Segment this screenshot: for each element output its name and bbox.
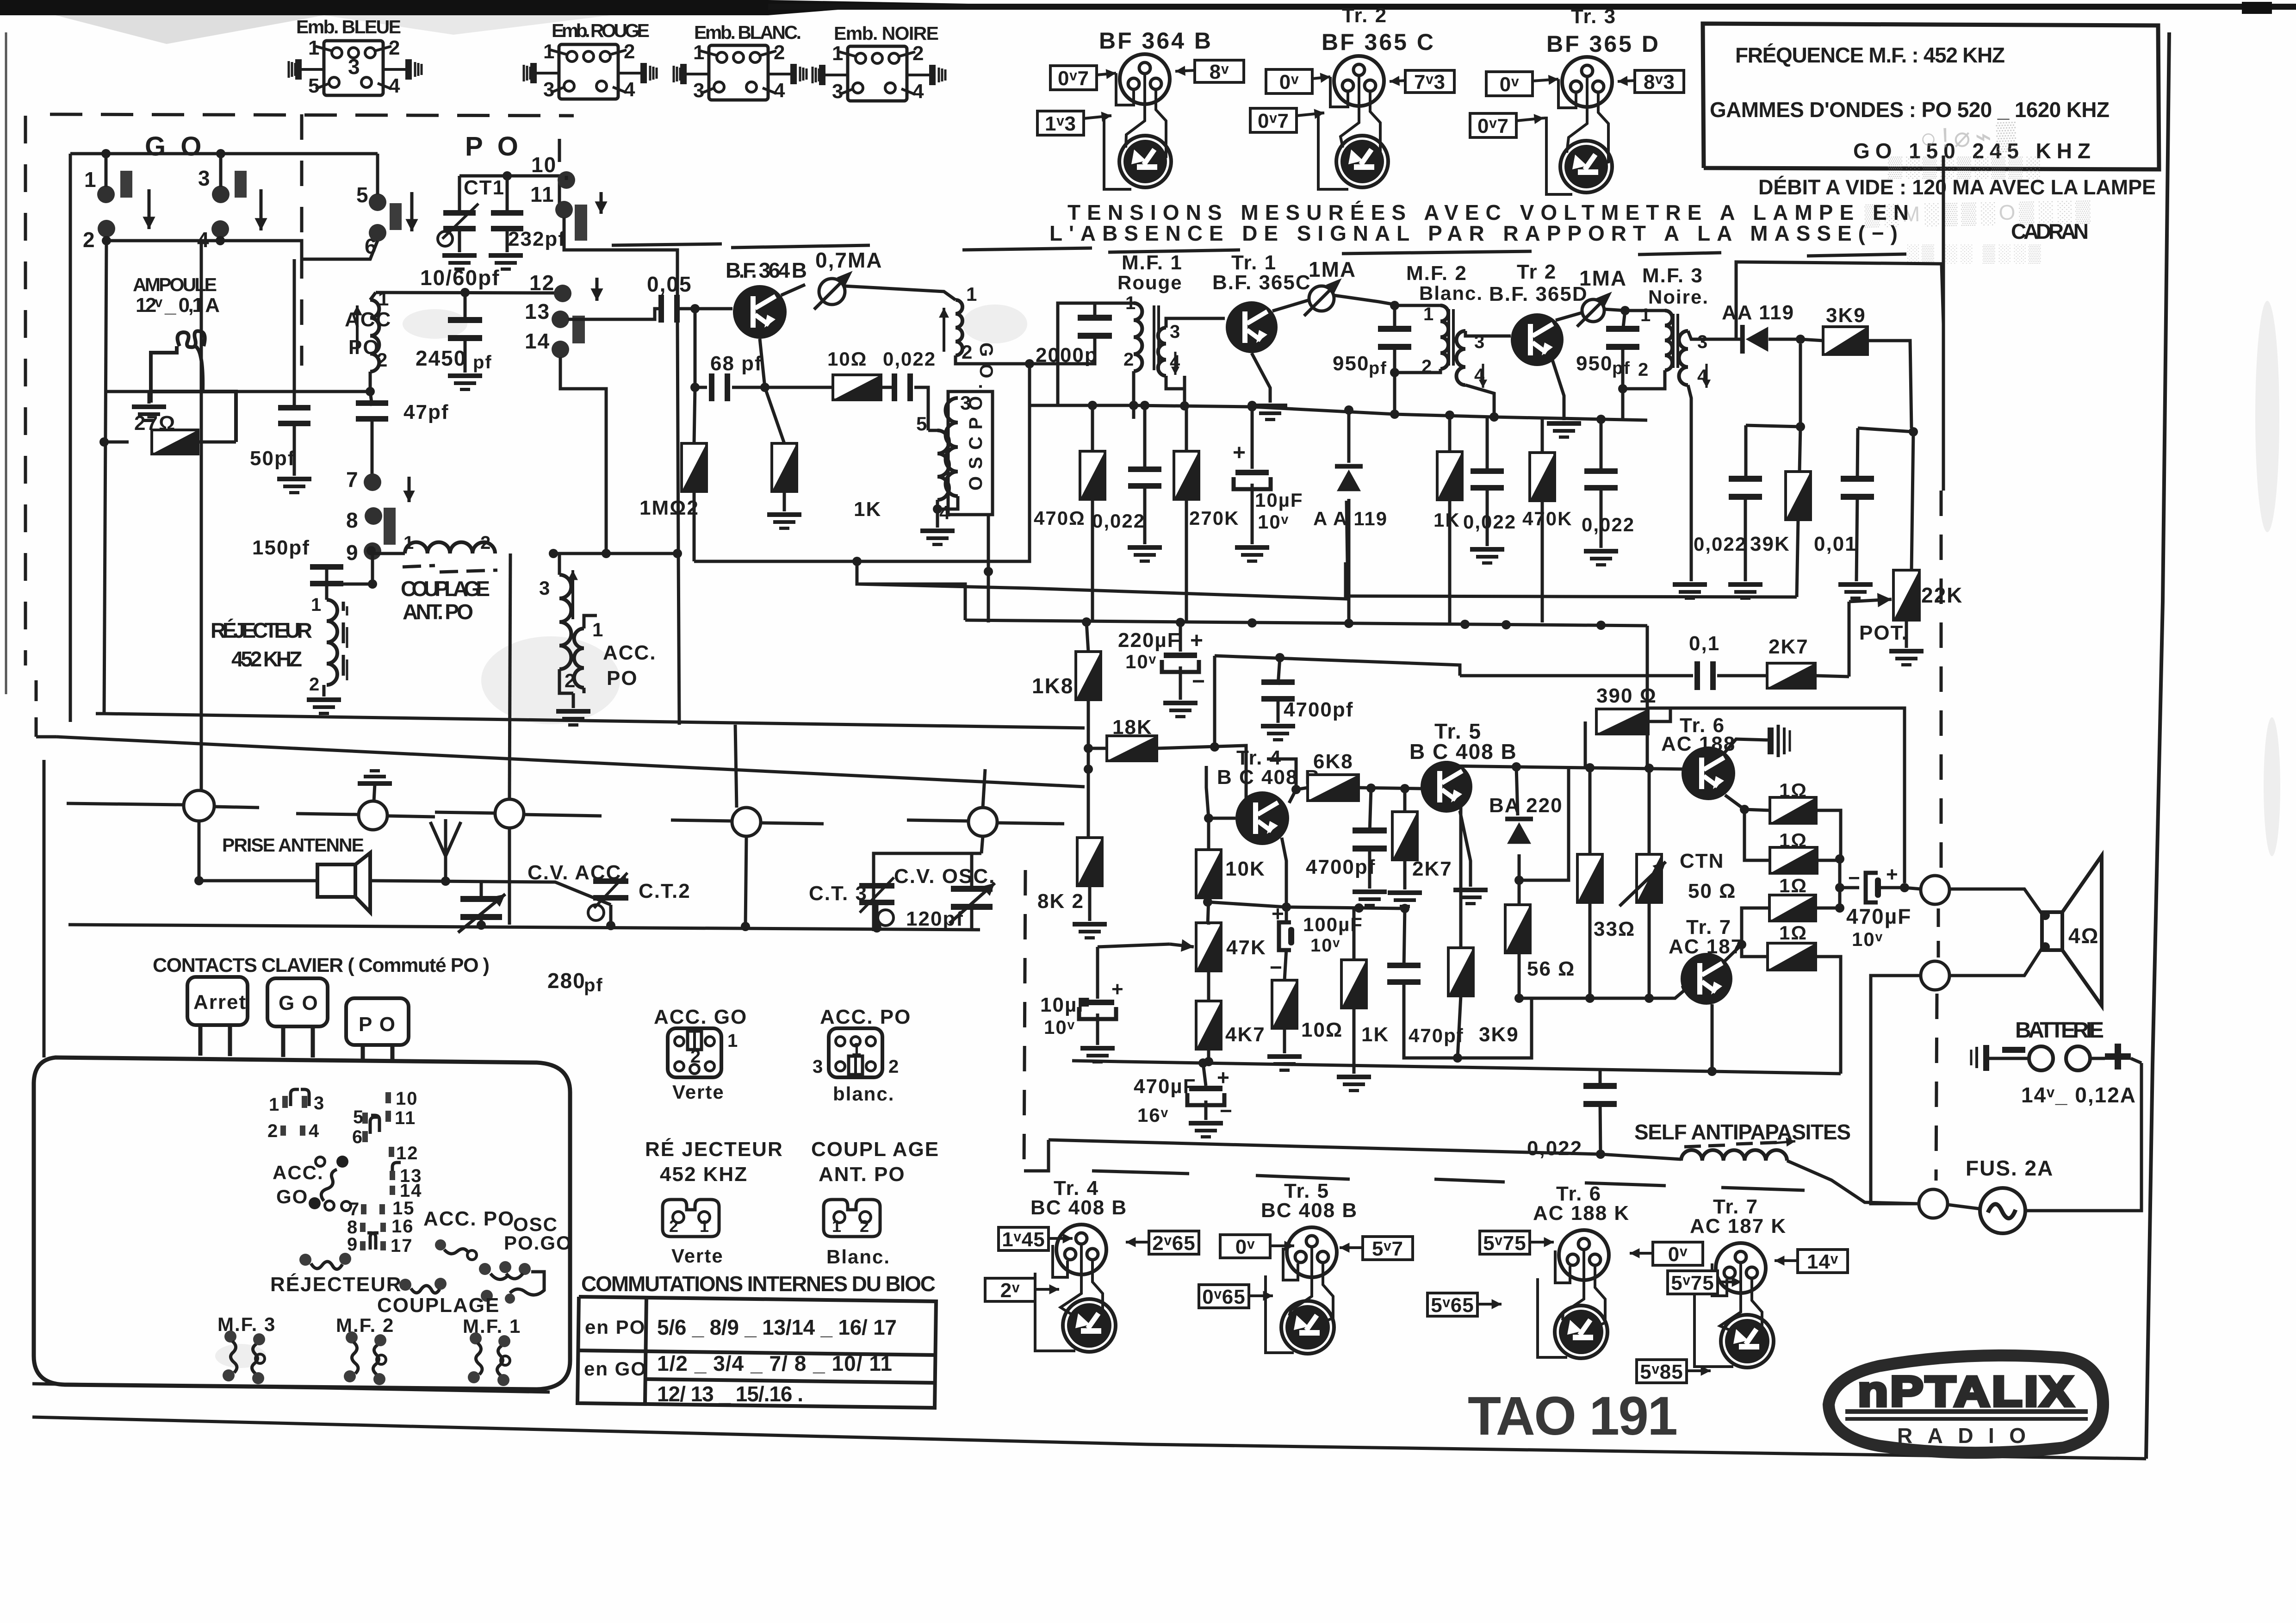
scan noise top-left bbox=[56, 15, 611, 44]
svg-text:PRISE ANTENNE: PRISE ANTENNE bbox=[222, 834, 366, 856]
svg-text:3: 3 bbox=[314, 1093, 325, 1113]
wire pot top bbox=[1911, 432, 1913, 571]
svg-text:12/ 13 _ 15/.16 .: 12/ 13 _ 15/.16 . bbox=[657, 1382, 804, 1406]
svg-text:470K: 470K bbox=[1522, 508, 1572, 529]
svg-text:0,022: 0,022 bbox=[883, 348, 936, 370]
svg-text:10Ω: 10Ω bbox=[827, 348, 867, 370]
svg-text:M.F. 1: M.F. 1 bbox=[463, 1315, 521, 1337]
svg-text:47K: 47K bbox=[1226, 936, 1266, 959]
wire GO top rail bbox=[70, 152, 378, 155]
stamp smudge 2 bbox=[1864, 199, 2094, 264]
svg-text:pf: pf bbox=[584, 975, 603, 995]
svg-text:0ᵛ: 0ᵛ bbox=[1500, 73, 1519, 96]
wire tr5 emitter bbox=[1460, 811, 1471, 887]
acc po transformer wires bbox=[558, 553, 561, 575]
connector REJECTEUR bbox=[663, 1200, 719, 1237]
transformer MF1 bbox=[1134, 303, 1142, 371]
wire tr2 emitter bbox=[1552, 360, 1564, 420]
wire rail B left stub bbox=[1024, 1140, 1049, 1171]
svg-text:1Ω: 1Ω bbox=[1779, 922, 1807, 944]
wire tr1 emitter bbox=[1252, 353, 1270, 403]
svg-text:CTN: CTN bbox=[1680, 850, 1724, 872]
wire bus 1345 bbox=[965, 620, 1647, 626]
svg-text:+: + bbox=[1190, 628, 1204, 653]
svg-text:1/2 _ 3/4 _ 7/ 8 _ 10/ 1: 1/2 _ 3/4 _ 7/ 8 _ 10/ 11 bbox=[657, 1351, 893, 1375]
mf2 block pins bbox=[344, 1331, 386, 1385]
wire osc go bottom bbox=[956, 355, 1030, 364]
svg-text:RADIO: RADIO bbox=[1897, 1424, 2036, 1448]
svg-text:en GO: en GO bbox=[584, 1358, 647, 1380]
switch arrow 1 bbox=[143, 189, 155, 229]
wire couplage bbox=[372, 553, 405, 584]
voltage box 5ᵛ7 bbox=[1363, 1237, 1413, 1260]
transistor pinout BF 364 B wires bbox=[1116, 73, 1134, 105]
svg-text:pf: pf bbox=[1369, 359, 1387, 378]
svg-text:COUPL AGE: COUPL AGE bbox=[811, 1138, 939, 1161]
svg-text:470pf: 470pf bbox=[1409, 1025, 1464, 1046]
svg-text:9: 9 bbox=[347, 1234, 358, 1255]
svg-text:1K: 1K bbox=[1361, 1023, 1389, 1046]
svg-text:2: 2 bbox=[690, 1046, 701, 1067]
svg-text:1: 1 bbox=[1423, 304, 1434, 324]
wire rail B 2157 bbox=[1519, 990, 1684, 998]
contact square 5-6 bbox=[390, 203, 402, 230]
dashed boundary x2216 bbox=[1024, 870, 1025, 1171]
svg-text:8: 8 bbox=[346, 508, 359, 532]
svg-text:0,022: 0,022 bbox=[1527, 1137, 1582, 1160]
svg-text:Emb. BLEUE: Emb. BLEUE bbox=[296, 16, 403, 37]
svg-text:COMMUTATIONS INTERNES DU Bl: COMMUTATIONS INTERNES DU BlOC bbox=[581, 1272, 936, 1296]
tr6 emitter wire bbox=[1725, 795, 1744, 809]
svg-text:P O: P O bbox=[465, 131, 522, 162]
transistor pinout BF 365 D wires bbox=[1558, 79, 1576, 108]
svg-text:RÉ JECTEUR: RÉ JECTEUR bbox=[645, 1138, 783, 1161]
wire mf3 ret ground bbox=[1690, 481, 1693, 581]
osc po box bbox=[948, 392, 993, 515]
feedthrough circle D bbox=[735, 725, 737, 808]
svg-text:6K8: 6K8 bbox=[1313, 750, 1353, 773]
svg-text:10ᵛ: 10ᵛ bbox=[1044, 1016, 1075, 1038]
svg-text:0,022: 0,022 bbox=[1092, 510, 1145, 532]
variable capacitor C.V. OSC bbox=[951, 886, 993, 910]
connector Emb. BLANC bbox=[674, 45, 807, 100]
tr6 base wire bbox=[1684, 768, 1689, 771]
block contacts OSC squiggle bbox=[479, 1261, 544, 1304]
svg-text:ACC. GO: ACC. GO bbox=[654, 1006, 747, 1028]
wire avc line up and around bbox=[1736, 262, 1943, 339]
wire emitter down bbox=[760, 339, 765, 387]
transistor Tr1 bbox=[1226, 301, 1278, 353]
transistor pinout BF 365 D device disc bbox=[1560, 141, 1612, 193]
svg-text:M.F. 1: M.F. 1 bbox=[1122, 251, 1183, 274]
block contacts 12-17 bbox=[347, 1143, 422, 1256]
pin numbers Emb. ROUGE bbox=[543, 40, 636, 101]
wire agc from mixer bbox=[694, 560, 857, 563]
svg-text:10ᵛ: 10ᵛ bbox=[1258, 511, 1289, 533]
svg-text:5ᵛ7: 5ᵛ7 bbox=[1372, 1237, 1403, 1260]
svg-text:7: 7 bbox=[349, 1199, 360, 1219]
svg-text:B C 408 B: B C 408 B bbox=[1217, 766, 1320, 789]
capacitor 470pf bbox=[1387, 963, 1421, 985]
transformer MF2 bbox=[1440, 305, 1448, 369]
svg-text:1: 1 bbox=[693, 41, 705, 64]
switch arrow 7 bbox=[403, 477, 415, 502]
pin numbers Emb. NOIRE bbox=[832, 42, 925, 103]
block contacts cluster 1-4 bbox=[267, 1089, 325, 1141]
wire po14 down bbox=[605, 444, 608, 553]
switch arrow 3 bbox=[254, 189, 267, 230]
connector Emb. BLEUE bbox=[289, 41, 422, 95]
connector Emb. ROUGE bbox=[524, 44, 657, 99]
svg-text:PO: PO bbox=[607, 667, 638, 690]
svg-text:2: 2 bbox=[1638, 360, 1649, 380]
svg-text:3K9: 3K9 bbox=[1826, 304, 1866, 327]
svg-text:950: 950 bbox=[1576, 352, 1613, 375]
svg-text:1MA: 1MA bbox=[1309, 257, 1356, 281]
wire 0,05 to base bbox=[677, 307, 732, 311]
svg-text:270K: 270K bbox=[1189, 507, 1239, 529]
svg-text:BC 408 B: BC 408 B bbox=[1261, 1199, 1358, 1222]
svg-text:0,022: 0,022 bbox=[1463, 511, 1516, 533]
capacitor 4700pf tr5 bbox=[1353, 827, 1387, 852]
svg-text:1K: 1K bbox=[1433, 509, 1460, 531]
svg-text:2: 2 bbox=[267, 1121, 279, 1141]
svg-text:Emb. BLANC.: Emb. BLANC. bbox=[694, 22, 803, 43]
svg-text:3: 3 bbox=[832, 80, 844, 103]
voltage box 5ᵛ85 bbox=[1637, 1360, 1687, 1383]
fuse circle feedthrough bbox=[1919, 1189, 1948, 1218]
wire mf2 pri bbox=[1395, 304, 1440, 307]
svg-text:B.F. 365D: B.F. 365D bbox=[1489, 283, 1588, 305]
svg-text:10µF: 10µF bbox=[1255, 489, 1303, 511]
svg-text:4: 4 bbox=[939, 502, 951, 523]
switch arrow 12 bbox=[590, 278, 603, 301]
wire rail 1530 bbox=[1647, 708, 1905, 883]
feedthrough circle B chassis bbox=[358, 769, 392, 786]
wire mf1 bottom bbox=[1132, 371, 1136, 405]
svg-text:2: 2 bbox=[389, 37, 401, 59]
wire e-bus 1960 bbox=[1208, 902, 1405, 908]
svg-text:10ᵛ: 10ᵛ bbox=[1852, 928, 1883, 950]
svg-text:0ᵛ7: 0ᵛ7 bbox=[1058, 67, 1089, 90]
svg-text:11: 11 bbox=[530, 182, 555, 206]
mf1 block pins bbox=[468, 1332, 510, 1386]
svg-text:1: 1 bbox=[269, 1094, 280, 1115]
svg-text:2: 2 bbox=[860, 1217, 870, 1236]
pinout circle Tr. 4 bbox=[1056, 1225, 1106, 1275]
transistor BF364B mixer bbox=[733, 285, 787, 339]
svg-text:16: 16 bbox=[391, 1216, 414, 1237]
svg-text:M.F. 3: M.F. 3 bbox=[217, 1313, 276, 1335]
pinout Tr. 4 wires bbox=[1053, 1245, 1067, 1277]
svg-text:SELF ANTIPAPASITES: SELF ANTIPAPASITES bbox=[1634, 1120, 1852, 1144]
svg-text:10/60pf: 10/60pf bbox=[420, 266, 500, 290]
pin numbers Emb. BLANC bbox=[693, 41, 786, 102]
svg-text:GO: GO bbox=[276, 1186, 308, 1207]
wire bus 1345 left end bbox=[857, 561, 965, 620]
svg-text:−: − bbox=[1192, 669, 1206, 694]
svg-text:2ᵛ65: 2ᵛ65 bbox=[1152, 1232, 1195, 1255]
wire rail L1 bbox=[96, 714, 1085, 728]
wire contact2 down rail bbox=[104, 241, 106, 714]
svg-text:B.F. 365C: B.F. 365C bbox=[1212, 271, 1311, 294]
button GO bbox=[267, 978, 328, 1026]
speaker bbox=[2042, 856, 2102, 1006]
svg-text:10Ω: 10Ω bbox=[1301, 1019, 1343, 1041]
meter 0,7MA bbox=[814, 271, 852, 309]
svg-text:2: 2 bbox=[888, 1057, 900, 1077]
svg-text:3: 3 bbox=[1170, 322, 1181, 342]
speaker circle bottom bbox=[1921, 961, 1949, 990]
voltage box 8ᵛ bbox=[1195, 60, 1244, 82]
svg-text:0,05: 0,05 bbox=[647, 272, 692, 296]
svg-text:0ᵛ: 0ᵛ bbox=[1235, 1236, 1255, 1258]
svg-text:RÉJECTEUR: RÉJECTEUR bbox=[270, 1273, 402, 1296]
svg-text:0,01: 0,01 bbox=[1814, 533, 1857, 555]
junction bbox=[101, 149, 111, 158]
svg-text:280: 280 bbox=[547, 969, 586, 993]
switch arrow 11 bbox=[595, 192, 607, 214]
svg-text:P O: P O bbox=[359, 1013, 396, 1036]
transistor pinout BF 365 D top view bbox=[1562, 57, 1612, 107]
tr7 collector wire bbox=[1711, 1004, 1714, 1071]
svg-text:Tr. 2: Tr. 2 bbox=[1342, 4, 1387, 27]
svg-text:GAMMES D'ONDES : PO 520 _: GAMMES D'ONDES : PO 520 _ 1620 KHZ bbox=[1710, 98, 2110, 122]
commutations table bbox=[577, 1297, 936, 1408]
wire GO bottom bbox=[106, 236, 220, 241]
svg-text:BA 220: BA 220 bbox=[1489, 794, 1563, 817]
transistor pinout BF 365 C top view bbox=[1334, 56, 1384, 106]
svg-text:1: 1 bbox=[700, 1217, 710, 1236]
speaker wires bbox=[1949, 889, 2042, 914]
wire 18K node down bbox=[1087, 748, 1090, 769]
voltage box 0ᵛ bbox=[1653, 1242, 1703, 1265]
antenna jack symbol bbox=[317, 853, 370, 912]
svg-text:12ᵛ _ 0,1 A: 12ᵛ _ 0,1 A bbox=[136, 294, 221, 317]
svg-text:120pf: 120pf bbox=[906, 908, 964, 930]
svg-text:5: 5 bbox=[308, 75, 320, 97]
svg-text:1: 1 bbox=[84, 168, 97, 192]
svg-text:7ᵛ3: 7ᵛ3 bbox=[1414, 71, 1446, 93]
svg-text:0ᵛ7: 0ᵛ7 bbox=[1477, 115, 1509, 137]
svg-text:1: 1 bbox=[851, 1040, 862, 1059]
wire antenna to cv bbox=[199, 847, 317, 881]
tr6 collector chassis cap bbox=[1723, 739, 1768, 754]
svg-text:10ᵛ: 10ᵛ bbox=[1310, 935, 1340, 956]
voltage box 0ᵛ bbox=[1266, 69, 1312, 93]
antenna symbol bbox=[430, 819, 461, 881]
voltage box 0ᵛ bbox=[1220, 1235, 1270, 1258]
stamp smudge bbox=[1888, 119, 2043, 179]
underline marks bbox=[612, 244, 1906, 256]
svg-text:RÉJECTEUR: RÉJECTEUR bbox=[211, 618, 313, 642]
svg-text:+: + bbox=[1111, 978, 1124, 1001]
svg-text:BF 365 C: BF 365 C bbox=[1322, 29, 1435, 55]
svg-text:39K: 39K bbox=[1750, 533, 1790, 555]
svg-text:3: 3 bbox=[813, 1057, 824, 1077]
wire mf3 pri bbox=[1625, 309, 1665, 312]
transistor Tr7 bbox=[1681, 953, 1732, 1005]
wire 27ohm bbox=[104, 441, 129, 444]
svg-text:1MΩ2: 1MΩ2 bbox=[639, 497, 699, 519]
wire af bus 1417 real bbox=[1215, 656, 1460, 676]
tuner block dashed boundary bbox=[25, 114, 574, 737]
chassis dashed line right bbox=[1940, 491, 1943, 872]
scan top black bar bbox=[0, 0, 2296, 15]
svg-text:C.T.2: C.T.2 bbox=[639, 880, 691, 902]
svg-text:1: 1 bbox=[832, 42, 844, 65]
svg-text:○!⌀⌁▒: ○!⌀⌁▒ bbox=[1919, 119, 2021, 155]
wire 11 down bbox=[564, 218, 677, 296]
svg-text:M.F. 3: M.F. 3 bbox=[1642, 264, 1703, 287]
wire rail L2 bbox=[56, 737, 1085, 787]
svg-text:2: 2 bbox=[624, 40, 636, 63]
svg-text:0,7MA: 0,7MA bbox=[815, 248, 882, 272]
svg-text:Rouge: Rouge bbox=[1117, 272, 1183, 293]
button Arret bbox=[187, 977, 248, 1025]
pinout Tr. 4 device disc bbox=[1063, 1299, 1116, 1352]
transistor Tr4 bbox=[1235, 791, 1289, 845]
transistor pinout BF 365 C device disc bbox=[1336, 136, 1388, 187]
svg-text:2450: 2450 bbox=[416, 346, 466, 370]
transistor Tr2 bbox=[1511, 313, 1564, 366]
svg-text:G O: G O bbox=[279, 992, 319, 1014]
svg-text:0ᵛ7: 0ᵛ7 bbox=[1258, 110, 1289, 132]
svg-text:5/6 _ 8/9 _ 13/14 _ 16/ 17: 5/6 _ 8/9 _ 13/14 _ 16/ 17 bbox=[657, 1315, 898, 1339]
svg-text:3: 3 bbox=[539, 577, 551, 599]
svg-text:12: 12 bbox=[529, 271, 555, 295]
svg-text:G O: G O bbox=[145, 131, 205, 162]
svg-text:1: 1 bbox=[543, 40, 555, 63]
block contacts ACC PO squiggle bbox=[435, 1239, 477, 1260]
contact square 8-9 bbox=[384, 508, 396, 545]
svg-text:ACC. PO: ACC. PO bbox=[820, 1006, 911, 1028]
tr7 base wire bbox=[1682, 986, 1684, 990]
svg-text:1: 1 bbox=[311, 595, 322, 615]
voltage box 2ᵛ65 bbox=[1149, 1231, 1199, 1254]
pinout circle Tr. 7 bbox=[1716, 1243, 1766, 1293]
svg-text:POT.: POT. bbox=[1859, 622, 1908, 644]
svg-text:ACC: ACC bbox=[345, 308, 391, 331]
voltage box 0ᵛ bbox=[1486, 72, 1533, 96]
tr7 emitter wire bbox=[1724, 945, 1742, 962]
wire 39K agc bbox=[1347, 501, 1797, 597]
svg-text:5ᵛ65: 5ᵛ65 bbox=[1431, 1294, 1474, 1317]
svg-text:3K9: 3K9 bbox=[1479, 1023, 1519, 1046]
svg-text:16ᵛ: 16ᵛ bbox=[1137, 1104, 1169, 1126]
svg-text:3: 3 bbox=[1697, 332, 1708, 352]
svg-text:TAO 191: TAO 191 bbox=[1468, 1386, 1681, 1447]
svg-text:ACC. PO: ACC. PO bbox=[423, 1207, 515, 1230]
svg-text:4K7: 4K7 bbox=[1225, 1023, 1266, 1046]
wire mf1 sec bbox=[1166, 318, 1225, 328]
svg-text:PO.GO: PO.GO bbox=[504, 1232, 572, 1254]
svg-text:Emb. ROUGE: Emb. ROUGE bbox=[552, 20, 651, 41]
svg-text:5ᵛ75: 5ᵛ75 bbox=[1483, 1232, 1526, 1255]
wire 9 down bbox=[371, 559, 374, 584]
pot ground bbox=[1905, 620, 1908, 648]
transformer MF3 bbox=[1665, 311, 1672, 370]
wire 14 down bbox=[560, 357, 606, 444]
svg-text:2: 2 bbox=[309, 674, 320, 695]
svg-text:BF 364 B: BF 364 B bbox=[1099, 28, 1213, 54]
svg-text:2: 2 bbox=[669, 1217, 679, 1236]
voltage box 1ᵛ45 bbox=[999, 1227, 1049, 1250]
svg-text:8ᵛ3: 8ᵛ3 bbox=[1644, 71, 1675, 93]
svg-text:Tr. 3: Tr. 3 bbox=[1571, 5, 1616, 28]
contact square 11 bbox=[575, 205, 587, 241]
svg-text:3: 3 bbox=[348, 55, 361, 79]
wire 100uf bbox=[1285, 907, 1288, 924]
connector ACC GO bbox=[668, 1028, 721, 1077]
svg-text:1MA: 1MA bbox=[1579, 266, 1627, 290]
svg-text:13: 13 bbox=[525, 299, 550, 323]
svg-text:470µF: 470µF bbox=[1846, 904, 1911, 928]
svg-text:COUPLAGE: COUPLAGE bbox=[377, 1294, 500, 1317]
voltage box 1ᵛ3 bbox=[1037, 111, 1084, 135]
svg-text:−: − bbox=[1270, 955, 1283, 979]
svg-text:47pf: 47pf bbox=[403, 401, 449, 423]
left page edge line bbox=[5, 32, 7, 694]
feedthrough circle C bbox=[509, 553, 510, 799]
svg-text:17: 17 bbox=[391, 1236, 413, 1256]
svg-text:Verte: Verte bbox=[671, 1245, 724, 1267]
svg-text:2: 2 bbox=[912, 42, 925, 65]
block couplage squiggle bbox=[399, 1278, 447, 1293]
svg-text:COUPLAGE: COUPLAGE bbox=[401, 577, 491, 601]
svg-text:8K 2: 8K 2 bbox=[1037, 890, 1084, 913]
wire mf1 top to 2000p bbox=[1095, 302, 1134, 305]
svg-text:2ᵛ: 2ᵛ bbox=[1000, 1279, 1020, 1302]
svg-text:1: 1 bbox=[1640, 305, 1651, 325]
wire 10/60 node bbox=[376, 292, 563, 293]
lamp ground bbox=[148, 392, 151, 404]
wire bottom long rail bbox=[1049, 1140, 1681, 1159]
connector ACC PO bbox=[829, 1028, 882, 1077]
pinout Tr. 7 wires bbox=[1712, 1263, 1727, 1296]
wire rail 2334 bbox=[1072, 1061, 1841, 1074]
voltage box 7ᵛ3 bbox=[1405, 70, 1454, 93]
svg-text:1ᵛ3: 1ᵛ3 bbox=[1045, 112, 1076, 135]
svg-text:33Ω: 33Ω bbox=[1594, 918, 1635, 940]
wire acc po coil bbox=[370, 292, 376, 300]
pinout circle Tr. 6 bbox=[1559, 1230, 1609, 1280]
svg-text:ANT. PO: ANT. PO bbox=[819, 1163, 906, 1186]
contact square 13-14 bbox=[572, 316, 585, 343]
svg-text:5: 5 bbox=[916, 413, 928, 435]
lamp symbol bbox=[151, 331, 205, 392]
wire PO osc top bbox=[459, 174, 566, 178]
capacitor 2450pf bbox=[464, 292, 467, 317]
junction row mf1 bbox=[1030, 364, 1058, 405]
svg-text:4: 4 bbox=[389, 75, 401, 97]
svg-text:Verte: Verte bbox=[672, 1081, 725, 1103]
wire 13 to 0,05 bbox=[568, 309, 660, 319]
wire 1417 left down bbox=[1213, 656, 1216, 746]
svg-text:1: 1 bbox=[832, 1217, 842, 1236]
svg-text:1: 1 bbox=[592, 619, 604, 640]
fuse symbol bbox=[1980, 1188, 2025, 1233]
self coil bbox=[1681, 1150, 1787, 1161]
wire mf2 sec to tr2 bbox=[1465, 331, 1511, 336]
transistor pinout BF 365 C wires bbox=[1330, 77, 1348, 107]
pinout circle Tr. 5 bbox=[1287, 1227, 1337, 1277]
gray smudge patches bbox=[215, 301, 2280, 1368]
block rejecteur squiggle bbox=[299, 1253, 351, 1269]
wire tr5 collector bbox=[1446, 761, 1689, 769]
mf3 block pins bbox=[223, 1331, 265, 1384]
svg-text:2: 2 bbox=[1123, 349, 1135, 370]
